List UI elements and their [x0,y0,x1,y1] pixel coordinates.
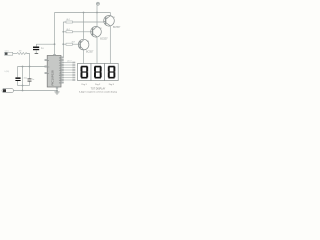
svg-text:L(80): L(80) [5,71,10,73]
wire base2 line [63,31,92,33]
resistor R1 [66,43,72,45]
IC right pins [61,57,64,83]
wire bypass cap branch [37,44,55,46]
wire mid vertical [22,67,24,86]
wire T3 collector [109,26,111,64]
digit 3 segments [108,66,116,79]
IC top pin pad [54,54,56,55]
capacitor C3 bypass [33,47,39,54]
wire T3 emitter drop [109,13,111,16]
svg-text:vs: vs [47,73,49,75]
svg-text:1M: 1M [19,50,22,52]
svg-text:b3: b3 [59,57,61,59]
wire T2 collector [96,37,98,64]
svg-text:b5: b5 [59,82,61,84]
resistor R3 [66,21,73,23]
wire T1 collector [83,50,85,64]
svg-text:a3: a3 [59,70,61,72]
svg-text:Dig.1: Dig.1 [82,84,88,86]
svg-text:PIC16F628: PIC16F628 [51,70,55,86]
svg-text:b2: b2 [59,60,61,62]
wire T1 emitter rail [83,13,85,41]
segment wires [64,63,73,81]
power terminal 9V [96,6,98,28]
svg-text:3-digit 7-segment common anode: 3-digit 7-segment common anode display [79,90,118,93]
svg-text:Dig.3: Dig.3 [109,84,115,86]
svg-text:b1: b1 [59,77,61,79]
wire IC ground [56,87,58,91]
svg-text:BC557: BC557 [86,51,94,54]
svg-text:BC557: BC557 [113,26,121,29]
ground [54,91,59,95]
probe P2 [2,89,14,93]
svg-text:abcd: abcd [67,61,71,63]
IC bottom pin pad [56,87,58,88]
svg-text:a1: a1 [59,65,61,67]
junction dots [22,12,98,92]
wire input to IC [13,53,18,55]
display caption [79,87,118,93]
wire to ground rail [22,86,24,91]
transistor Q2 BC557 [91,27,102,38]
resistor R2 [66,31,72,33]
svg-text:TOT DISPLAY: TOT DISPLAY [91,87,106,90]
IC U1 [47,56,61,88]
IC left pins [45,59,47,73]
wire base3 line [63,21,105,23]
wire base bus vertical [62,22,64,58]
svg-text:mc: mc [47,66,49,68]
transistor Q1 BC557 [78,39,89,50]
display pin pads [72,62,75,81]
resistor R4 zigzag [17,53,27,55]
wire caps bottom tie [18,85,30,87]
transistor Q3 BC557 [104,15,115,26]
svg-text:os: os [47,60,49,62]
svg-text:a0: a0 [59,62,61,64]
capacitor C1 elco [15,77,20,81]
svg-text:sens: sens [5,50,9,52]
wire base1 line [63,43,80,45]
wire cap2 vertical [29,67,31,86]
svg-text:b4: b4 [59,80,61,82]
digit 2 segments [94,66,102,79]
svg-text:Dig.2: Dig.2 [95,84,101,86]
digit 1 segments [81,66,89,79]
IC pin name marks [59,57,61,84]
wire supply rail horizontal [55,12,111,14]
svg-text:b0: b0 [59,75,61,77]
svg-text:a4: a4 [59,72,61,74]
capacitor C2 [28,79,32,81]
svg-text:a2: a2 [59,67,61,69]
sensor probe P1 [5,52,13,55]
display digit labels [82,84,115,86]
power terminal symbol [96,2,99,5]
wire VDD drop to IC [54,13,56,56]
wire ground rail [14,90,58,92]
wire elco branch [17,67,19,86]
wire RC top line [18,66,48,68]
display digit boxes [78,64,119,81]
svg-text:BC557: BC557 [100,37,108,40]
